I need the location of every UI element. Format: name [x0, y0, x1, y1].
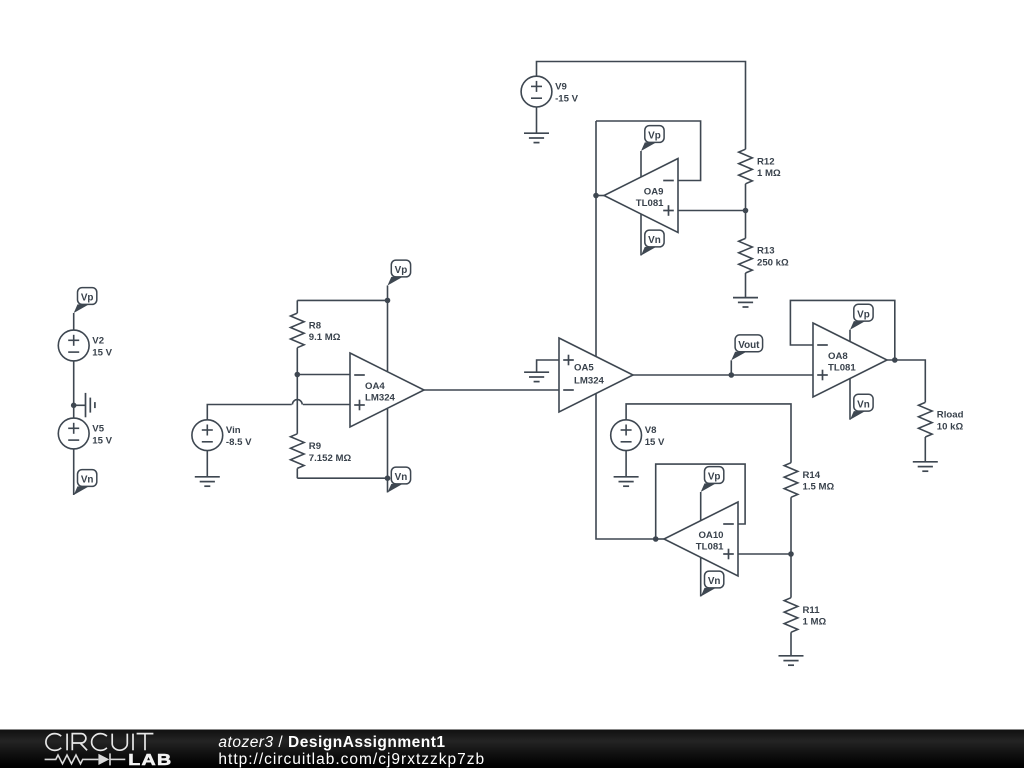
flag Vn (OA9)	[641, 230, 664, 255]
wire V9 top to R12	[537, 62, 746, 150]
node R12/R13/OA9+ junction	[743, 208, 749, 214]
svg-text:V2: V2	[92, 336, 104, 347]
ground Rload	[913, 462, 938, 471]
svg-text:TL081: TL081	[636, 198, 664, 209]
svg-text:atozer3 / DesignAssignment1: atozer3 / DesignAssignment1	[218, 734, 445, 751]
wire OA8 - feedback loop	[790, 300, 894, 360]
svg-text:Vn: Vn	[648, 235, 661, 246]
svg-text:V5: V5	[92, 424, 104, 435]
op-amp OA9 TL081	[604, 159, 678, 233]
svg-text:LM324: LM324	[365, 392, 396, 403]
svg-text:-8.5 V: -8.5 V	[226, 437, 252, 448]
op-amp OA8 TL081	[813, 323, 887, 397]
svg-text:http://circuitlab.com/cj9rxtzz: http://circuitlab.com/cj9rxtzzkp7zb	[218, 751, 485, 768]
resistor R13	[739, 238, 789, 273]
wire R9 bottom to Vn line	[297, 477, 387, 479]
flag Vp (OA8)	[850, 304, 873, 329]
flag Vn (OA4)	[388, 467, 411, 492]
wire node to R11	[790, 554, 792, 598]
wire node to R13	[745, 211, 747, 239]
wire OA4 to Vn supply	[387, 409, 389, 493]
voltage source V5	[58, 418, 112, 449]
svg-text:R8: R8	[309, 320, 322, 331]
ground R13	[733, 298, 758, 307]
flag Vp (left)	[74, 288, 97, 313]
wire R8 top to Vp line	[297, 299, 387, 301]
svg-text:Rload: Rload	[937, 410, 964, 421]
node OA9 output junction	[593, 193, 599, 199]
node OA8 output junction	[892, 357, 898, 363]
wire OA9 - feedback loop	[596, 121, 701, 181]
wire V9 to ground	[536, 107, 538, 133]
svg-text:1 MΩ: 1 MΩ	[757, 168, 781, 179]
svg-text:10 kΩ: 10 kΩ	[937, 421, 964, 432]
flag Vp (OA10)	[701, 467, 724, 492]
wire Vp supply to OA4	[387, 286, 389, 372]
wire top to R8	[296, 300, 298, 313]
wire OA9 loop down to OA5 Vp pin	[595, 121, 597, 357]
wire OA8 Vp pin	[849, 330, 851, 342]
svg-text:R14: R14	[803, 470, 821, 481]
svg-text:9.1 MΩ: 9.1 MΩ	[309, 332, 341, 343]
wire OA9 Vp pin	[640, 151, 642, 177]
flag Vout	[731, 335, 762, 360]
svg-text:1.5 MΩ: 1.5 MΩ	[803, 482, 835, 493]
svg-text:7.152 MΩ: 7.152 MΩ	[309, 453, 352, 464]
flag Vn (OA8)	[850, 394, 873, 419]
wire OA10 - feedback loop	[656, 464, 745, 539]
flag Vn (left)	[74, 470, 97, 495]
svg-text:15 V: 15 V	[92, 435, 112, 446]
resistor R14	[784, 463, 834, 498]
svg-text:R12: R12	[757, 157, 775, 168]
svg-text:OA5: OA5	[574, 363, 594, 374]
svg-text:Vp: Vp	[395, 265, 408, 276]
wire R11 to ground	[790, 632, 792, 656]
wire OA8 out to Rload	[887, 360, 925, 402]
wire OA9 output stub	[596, 195, 604, 197]
flag Vp (OA9)	[641, 126, 664, 151]
svg-text:1 MΩ: 1 MΩ	[803, 617, 827, 628]
wire R8 to node	[296, 348, 298, 375]
flag Vn (OA10)	[701, 571, 724, 596]
ground OA5 +	[524, 372, 549, 381]
wire Vp to V2	[73, 313, 75, 330]
svg-text:Vp: Vp	[648, 131, 661, 142]
svg-text:R9: R9	[309, 441, 321, 452]
svg-text:Vn: Vn	[395, 472, 408, 483]
voltage source V8	[611, 420, 665, 451]
wire hop to OA4 + input	[303, 404, 350, 406]
wire OA9 + input	[678, 210, 746, 212]
svg-text:15 V: 15 V	[645, 437, 665, 448]
flag Vp (OA4)	[388, 260, 411, 285]
ground R11	[779, 656, 804, 665]
wire OA10 Vn pin	[700, 558, 702, 597]
svg-text:OA8: OA8	[828, 351, 848, 362]
wire OA5 Vn pin down to OA10 out	[596, 394, 656, 540]
op-amp OA4 LM324	[350, 353, 424, 427]
ground Vin	[195, 477, 220, 486]
svg-text:Vout: Vout	[738, 340, 760, 351]
node Vn/R9 junction	[385, 475, 391, 481]
voltage source V2	[58, 330, 112, 361]
ground V9	[524, 133, 549, 142]
wire Vout stub	[730, 360, 732, 375]
wire OA10 output stub	[656, 538, 664, 540]
svg-text:TL081: TL081	[828, 362, 856, 373]
CircuitLab logo text CIRCUIT	[46, 734, 154, 751]
node OA10 output junction	[653, 536, 659, 542]
voltage source V9	[521, 76, 579, 107]
ground V8	[614, 477, 639, 486]
node R14/R11/OA10+ junction	[788, 551, 794, 557]
wire OA10 + input	[738, 553, 791, 555]
CircuitLab logo resistor-diode strip	[45, 753, 126, 765]
svg-text:250 kΩ: 250 kΩ	[757, 257, 789, 268]
svg-text:Vp: Vp	[81, 293, 94, 304]
wire OA10 Vp pin	[700, 492, 702, 521]
op-amp OA10 TL081	[664, 502, 738, 576]
svg-text:Vp: Vp	[857, 309, 870, 320]
resistor R12	[739, 149, 781, 184]
voltage source Vin	[192, 420, 252, 451]
svg-text:Vp: Vp	[708, 472, 721, 483]
wire node to OA4 - input	[297, 374, 350, 376]
svg-text:-15 V: -15 V	[555, 93, 579, 104]
wire ground stub	[74, 404, 86, 406]
svg-text:OA4: OA4	[365, 381, 385, 392]
wire V5 to Vn	[73, 449, 75, 495]
wire OA4 out to OA5 -	[424, 389, 559, 391]
svg-text:OA10: OA10	[698, 530, 723, 541]
svg-text:OA9: OA9	[644, 187, 664, 198]
svg-text:R13: R13	[757, 246, 775, 257]
node Vout junction	[729, 372, 735, 378]
wire V8 to ground	[625, 451, 627, 477]
wire R12 to node	[745, 184, 747, 211]
svg-text:R11: R11	[803, 605, 821, 616]
svg-text:Vn: Vn	[857, 399, 870, 410]
footer bar	[0, 730, 1024, 768]
node junction V2-V5	[71, 403, 77, 409]
op-amp OA5 LM324	[559, 338, 633, 412]
wire node to R9	[296, 375, 298, 434]
wire Vin to OA4 +	[207, 405, 291, 420]
svg-text:V8: V8	[645, 425, 657, 436]
wire V2 to V5	[73, 361, 75, 418]
svg-text:LM324: LM324	[574, 375, 605, 386]
wire V8 to R14	[626, 404, 791, 463]
wire R9 to bottom	[296, 468, 298, 478]
svg-text:V9: V9	[555, 82, 567, 93]
wire OA5 + to ground	[537, 360, 559, 372]
svg-text:TL081: TL081	[696, 541, 724, 552]
svg-text:Vn: Vn	[81, 475, 94, 486]
wire Rload to ground	[924, 437, 926, 462]
resistor R11	[784, 598, 826, 633]
ground (right-facing)	[86, 393, 95, 417]
svg-text:15 V: 15 V	[92, 347, 112, 358]
resistor Rload	[919, 402, 964, 437]
wire hop over R8-R9 line	[292, 400, 302, 405]
node Vp/R8 junction	[385, 298, 391, 304]
svg-text:Vn: Vn	[708, 576, 721, 587]
wire OA9 Vn pin	[640, 214, 642, 256]
resistor R8	[291, 313, 341, 348]
node R8/R9/OA4- junction	[295, 372, 301, 378]
wire Vin to ground	[206, 451, 208, 477]
resistor R9	[291, 434, 352, 469]
wire R13 to ground	[745, 273, 747, 298]
wire OA5 out to OA8 +	[633, 374, 813, 376]
svg-text:Vin: Vin	[226, 425, 241, 436]
svg-text:LAB: LAB	[128, 751, 172, 768]
wire OA8 Vn pin	[849, 379, 851, 420]
wire R14 to node	[790, 497, 792, 554]
